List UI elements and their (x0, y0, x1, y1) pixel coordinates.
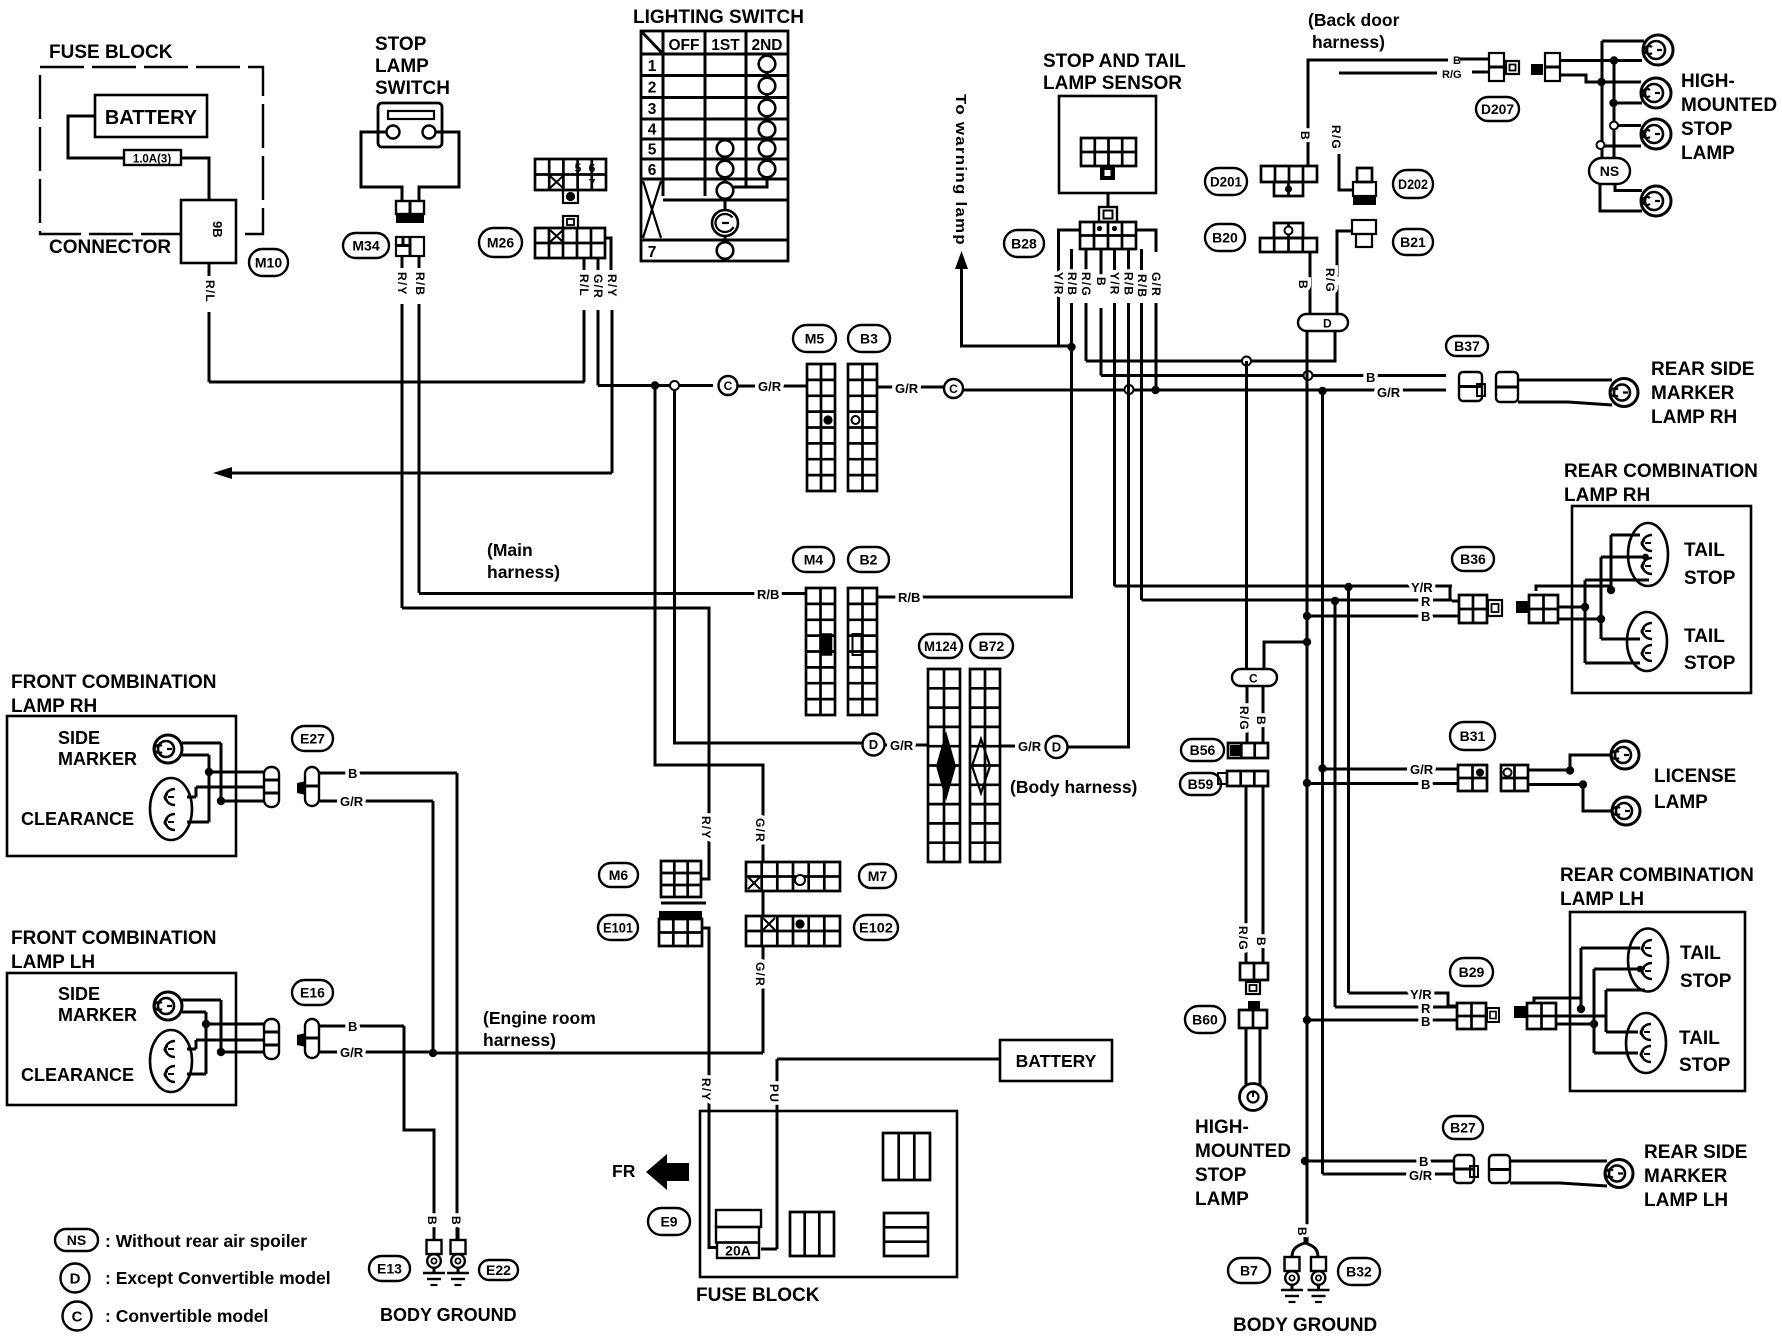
svg-text:TAIL: TAIL (1684, 626, 1725, 647)
high-mounted stop lamp bulbs (1643, 35, 1673, 65)
svg-text:STOP: STOP (1684, 653, 1736, 674)
svg-text:M4: M4 (804, 552, 824, 568)
svg-text:B: B (1421, 609, 1430, 624)
svg-text:STOP: STOP (1680, 971, 1732, 992)
connector B72 grid (970, 669, 1000, 862)
svg-text:B: B (1453, 55, 1461, 67)
link 2ND to rotary (734, 177, 767, 187)
connector E27 oval (292, 726, 333, 751)
wire Y/R net vertical (1347, 587, 1350, 993)
fuse block box (700, 1111, 957, 1277)
connector B56 oval (1181, 739, 1224, 761)
connector D201 oval (1205, 168, 1247, 195)
connector B37 pair (1459, 372, 1482, 401)
svg-text:M10: M10 (255, 255, 282, 271)
battery box (95, 95, 207, 137)
connector M124 oval (919, 634, 962, 658)
B28 leg runs (1070, 303, 1073, 348)
svg-text:B3: B3 (860, 331, 878, 347)
svg-text:: Except Convertible model: : Except Convertible model (105, 1268, 331, 1288)
connector E13 oval (369, 1256, 410, 1281)
connector M34 upper (396, 201, 424, 214)
connector E9 oval (648, 1208, 690, 1235)
svg-text:harness): harness) (483, 1030, 556, 1050)
svg-text:: Convertible model: : Convertible model (105, 1306, 268, 1326)
svg-text:(Main: (Main (487, 540, 533, 560)
svg-text:B: B (1094, 277, 1108, 287)
svg-text:MOUNTED: MOUNTED (1681, 95, 1777, 116)
connector box 9B (181, 200, 236, 263)
svg-text:R/G: R/G (1237, 706, 1251, 731)
connector C pill (1232, 669, 1277, 686)
svg-text:MOUNTED: MOUNTED (1195, 1141, 1291, 1162)
svg-text:7: 7 (589, 177, 596, 191)
connector B36 (1444, 586, 1459, 616)
svg-text:Y/R: Y/R (1108, 272, 1122, 296)
svg-text:TAIL: TAIL (1679, 1028, 1720, 1049)
side marker bulb (154, 735, 182, 763)
connector M34 oval (343, 233, 389, 258)
connector B27 oval (1443, 1116, 1483, 1139)
lamp box LH (1570, 912, 1745, 1091)
svg-text:CLEARANCE: CLEARANCE (21, 809, 134, 829)
svg-text:D: D (869, 737, 878, 752)
svg-text:LIGHTING SWITCH: LIGHTING SWITCH (633, 7, 804, 28)
svg-text:1ST: 1ST (711, 37, 740, 54)
svg-text:BATTERY: BATTERY (105, 107, 198, 129)
svg-text:B: B (1421, 777, 1430, 792)
row lines (641, 74, 788, 77)
connector M5 grid (807, 364, 835, 491)
wire R/L from M10 down (208, 263, 211, 276)
RH lamp internal wiring (1536, 535, 1640, 591)
front LH internal wires (182, 1012, 206, 1074)
switch contact circles 1ST (717, 140, 734, 157)
connector B32 oval (1338, 1258, 1380, 1285)
svg-text:G/R: G/R (1018, 739, 1042, 754)
connector D pill (1298, 314, 1348, 331)
arrow up (962, 268, 1072, 346)
connector B59 oval (1180, 773, 1221, 795)
fusible link 10A (124, 150, 181, 165)
wire R/L bus (209, 381, 585, 384)
svg-text:STOP: STOP (1679, 1055, 1731, 1076)
svg-text:BODY GROUND: BODY GROUND (1233, 1315, 1377, 1336)
svg-text:B: B (1254, 937, 1268, 947)
B28 leg wires (1070, 249, 1073, 270)
svg-text:Y/R: Y/R (1411, 580, 1433, 595)
svg-text:R/G: R/G (1236, 926, 1250, 951)
connector M4 oval (793, 547, 834, 572)
svg-text:E16: E16 (300, 985, 325, 1001)
svg-text:G/R: G/R (591, 274, 605, 299)
connector B2 oval (848, 547, 889, 572)
svg-text:M26: M26 (487, 235, 514, 251)
svg-text:G/R: G/R (890, 738, 914, 753)
front RH internal wires (182, 755, 209, 822)
sensor box (1059, 96, 1156, 193)
connector B31 b (1501, 765, 1528, 791)
fuse 20A (716, 1210, 761, 1227)
svg-text:M7: M7 (868, 868, 888, 884)
legend C (63, 1302, 92, 1331)
svg-text:NS: NS (1600, 163, 1619, 179)
svg-text:R/G: R/G (1442, 69, 1462, 81)
wire R/B to M4 (419, 592, 806, 595)
R/Y continues from E101 (702, 928, 709, 1112)
svg-text:LAMP RH: LAMP RH (1651, 407, 1737, 428)
svg-text:R/B: R/B (413, 272, 427, 296)
header cells (641, 31, 788, 196)
body ground symbol E13 (427, 1240, 442, 1254)
svg-text:LAMP: LAMP (1681, 143, 1735, 164)
wires Y/R R B to B36 (1115, 585, 1453, 588)
high-mounted stop lamp wiring (1560, 59, 1642, 62)
switch loop wires (361, 132, 402, 201)
connector B72 oval (970, 634, 1013, 658)
svg-text:E9: E9 (660, 1214, 677, 1230)
svg-text:G/R: G/R (1410, 762, 1434, 777)
wire B37 B line (1101, 374, 1446, 377)
tail/stop bulb RH top (1628, 523, 1668, 586)
connector E27 pills (264, 767, 279, 807)
wire B from E16 (319, 1025, 404, 1028)
connector B21 (1352, 220, 1376, 234)
svg-text:Y/R: Y/R (1410, 987, 1432, 1002)
wire open-circle net down to body harness D (675, 390, 863, 744)
wire R/G from B21 (1337, 231, 1352, 314)
wires B59 to B60 (1245, 786, 1248, 963)
connector M5 oval (793, 325, 836, 352)
connector M6 grid (661, 861, 701, 897)
svg-text:REAR COMBINATION: REAR COMBINATION (1564, 461, 1758, 482)
svg-text:G/R: G/R (340, 794, 364, 809)
svg-text:To warning lamp: To warning lamp (952, 94, 969, 246)
LH lamp internal wiring (1534, 948, 1640, 1009)
wire G/R from E102 to engine room bus (762, 946, 765, 1053)
svg-text:R/B: R/B (757, 587, 779, 602)
body ground E symbol right (1311, 1257, 1326, 1271)
svg-text:C: C (724, 379, 733, 393)
svg-text:STOP: STOP (375, 34, 427, 55)
legend D (61, 1264, 90, 1293)
svg-text:CONNECTOR: CONNECTOR (49, 237, 171, 258)
wire G/R bus to C (598, 384, 713, 387)
wire G/R from E16 (engine room harness) (319, 1051, 433, 1054)
connector B28 oval (1004, 230, 1044, 257)
svg-text:M6: M6 (609, 867, 629, 883)
fuse block component bottom right (884, 1213, 928, 1256)
connector M10 (249, 249, 288, 276)
svg-text:STOP AND TAIL: STOP AND TAIL (1043, 51, 1186, 72)
wire G/R between M7 and E102 (762, 891, 765, 916)
svg-text:B31: B31 (1460, 728, 1486, 744)
svg-text:G/R: G/R (895, 381, 919, 396)
svg-text:OFF: OFF (669, 37, 700, 54)
svg-text:HIGH-: HIGH- (1681, 71, 1735, 92)
connector B56 (1228, 743, 1268, 758)
svg-text:MARKER: MARKER (1644, 1166, 1728, 1187)
svg-text:G/R: G/R (1149, 272, 1163, 297)
connector D207 oval (1476, 97, 1519, 121)
wires R/Y R/B from M34 (401, 256, 404, 268)
svg-text:B59: B59 (1188, 776, 1214, 792)
svg-text:B: B (1296, 280, 1310, 290)
svg-text:B72: B72 (979, 638, 1005, 654)
svg-text:1: 1 (648, 58, 657, 75)
svg-text:R/B: R/B (1135, 274, 1149, 298)
svg-text:E101: E101 (603, 920, 633, 936)
wire PU from battery (777, 1058, 1000, 1061)
svg-text:FUSE BLOCK: FUSE BLOCK (696, 1285, 820, 1306)
svg-text:R/L: R/L (203, 280, 217, 303)
connector M26 grid (563, 216, 578, 228)
svg-text:B: B (1366, 370, 1375, 385)
lamp box LH front (7, 973, 236, 1105)
svg-text:1.0A(3): 1.0A(3) (133, 154, 172, 166)
svg-text:E27: E27 (300, 731, 325, 747)
svg-text:LAMP: LAMP (1654, 792, 1708, 813)
stop lamp switch body (378, 103, 442, 147)
side marker bulb (154, 992, 182, 1020)
svg-text:SIDE: SIDE (58, 984, 100, 1004)
fuse block component top right (883, 1133, 930, 1180)
svg-text:E102: E102 (859, 920, 893, 936)
svg-text:B: B (449, 1216, 463, 1226)
svg-text:B2: B2 (860, 552, 878, 568)
connector D201 (1307, 154, 1310, 166)
connector E102 grid (746, 916, 840, 946)
svg-text:R/Y: R/Y (699, 816, 713, 840)
connector D202 (1339, 154, 1353, 190)
svg-text:2: 2 (648, 80, 657, 97)
wire to D circle right (body harness) (674, 742, 677, 745)
connector E101 grid (659, 911, 702, 919)
svg-text:G/R: G/R (758, 379, 782, 394)
license lamp wires (1528, 769, 1570, 772)
svg-text:PU: PU (767, 1084, 781, 1103)
svg-text:(Engine room: (Engine room (483, 1008, 596, 1028)
svg-text:TAIL: TAIL (1680, 943, 1721, 964)
connector B31 oval (1450, 722, 1495, 750)
wire B from E27 (319, 772, 457, 775)
svg-text:7: 7 (648, 244, 657, 261)
node open circle (670, 381, 679, 390)
svg-text:LICENSE: LICENSE (1654, 766, 1736, 787)
wire battery to fusible link (68, 116, 124, 158)
connector B2 grid (848, 588, 877, 715)
svg-text:B56: B56 (1190, 742, 1216, 758)
svg-text:D202: D202 (1398, 176, 1428, 192)
svg-text:M5: M5 (805, 331, 825, 347)
svg-text:FUSE BLOCK: FUSE BLOCK (49, 42, 173, 63)
body ground symbol E22 (451, 1240, 466, 1254)
connector M34 lower (396, 237, 424, 256)
connector B20 (1274, 223, 1303, 238)
connector B3 grid (848, 364, 877, 491)
svg-text:E13: E13 (377, 1261, 402, 1277)
wire G/R from B72 to D to G/R bus (1000, 745, 1015, 748)
svg-text:9B: 9B (210, 221, 225, 238)
svg-text:CLEARANCE: CLEARANCE (21, 1065, 134, 1085)
svg-text:2ND: 2ND (751, 37, 782, 54)
wire G/R net vertical (1321, 391, 1324, 1174)
svg-text:REAR COMBINATION: REAR COMBINATION (1560, 865, 1754, 886)
svg-text:6: 6 (648, 162, 657, 179)
svg-text:MARKER: MARKER (58, 1005, 137, 1025)
svg-text:G/R: G/R (1377, 385, 1401, 400)
connector E16 pills (264, 1019, 279, 1059)
svg-text:R/G: R/G (1329, 125, 1343, 150)
connector B20 oval (1205, 224, 1245, 251)
svg-text:LAMP RH: LAMP RH (1564, 485, 1650, 506)
svg-text:FRONT COMBINATION: FRONT COMBINATION (11, 672, 216, 693)
connector B28 grid (1080, 222, 1136, 249)
svg-text:Y/R: Y/R (1052, 272, 1066, 296)
legend NS (55, 1229, 98, 1251)
sensor inner grid (1081, 138, 1136, 166)
connector B36 oval (1452, 547, 1494, 571)
svg-text:REAR SIDE: REAR SIDE (1644, 1142, 1747, 1163)
svg-text:B28: B28 (1011, 236, 1037, 252)
svg-text:SIDE: SIDE (58, 728, 100, 748)
svg-text:BATTERY: BATTERY (1016, 1051, 1097, 1071)
svg-text:R/B: R/B (898, 590, 920, 605)
svg-text:6: 6 (589, 161, 596, 175)
wire B net vertical (1306, 331, 1309, 1243)
svg-text:M34: M34 (352, 238, 379, 254)
connector B60 (1248, 1001, 1260, 1010)
wire G/R from E27 (319, 800, 433, 803)
svg-text:B: B (1421, 1014, 1430, 1029)
svg-text:FRONT COMBINATION: FRONT COMBINATION (11, 928, 216, 949)
wires B G/R to B27 (1305, 1160, 1454, 1163)
svg-text:R/B: R/B (1065, 272, 1079, 296)
convertible C symbol (719, 376, 738, 395)
wires G/R B to license (1323, 768, 1459, 771)
wire R net vertical (1334, 601, 1337, 1007)
wire R/G to C pill (1245, 361, 1248, 669)
svg-text:B: B (1419, 1154, 1428, 1169)
svg-text:R/Y: R/Y (605, 274, 619, 298)
svg-text:LAMP LH: LAMP LH (1560, 889, 1644, 910)
connector M26 oval (479, 228, 522, 257)
connector E101 oval (598, 915, 638, 940)
connector B7 oval (1228, 1258, 1270, 1283)
connector M4 grid (806, 588, 835, 715)
svg-text:4: 4 (648, 122, 657, 139)
connector B29 oval (1450, 958, 1493, 986)
connector B3 oval (848, 325, 890, 352)
connector B59 (1218, 773, 1227, 784)
svg-text:R/B: R/B (1122, 272, 1136, 296)
svg-text:D207: D207 (1481, 101, 1514, 117)
svg-text:E22: E22 (486, 1262, 511, 1278)
svg-text:R/Y: R/Y (699, 1078, 713, 1102)
svg-text:D: D (1323, 317, 1332, 331)
wire B back door (1308, 60, 1448, 166)
R/Y hook into M6 (701, 877, 709, 879)
connector E16 oval (292, 980, 333, 1005)
clearance bulb (150, 1030, 192, 1092)
svg-text:B: B (1298, 131, 1312, 141)
license lamp bulbs (1611, 741, 1639, 769)
svg-text:5: 5 (648, 142, 657, 159)
svg-text:R/G: R/G (1079, 272, 1093, 297)
svg-text:REAR SIDE: REAR SIDE (1651, 359, 1754, 380)
svg-text:MARKER: MARKER (1651, 383, 1735, 404)
row7 circle (717, 242, 734, 259)
branch B to C pill (1264, 642, 1307, 669)
wires below NS (1615, 184, 1642, 191)
connector joint 5/6/7 grid (535, 159, 606, 190)
wire R/G from D pill to bus (1086, 331, 1335, 361)
clearance bulb (150, 778, 192, 840)
svg-text:(Body harness): (Body harness) (1010, 777, 1137, 797)
svg-text:R: R (1421, 594, 1431, 609)
svg-text:LAMP: LAMP (1195, 1189, 1249, 1210)
tail/stop bulb LH top (1628, 929, 1668, 992)
svg-text:B: B (1254, 716, 1268, 726)
svg-text:R/L: R/L (577, 274, 591, 297)
connector B27 pair (1454, 1155, 1474, 1183)
connector D207 a (1460, 58, 1489, 61)
D circle symbol (863, 734, 885, 756)
wires Y/R R B to B29 (1349, 993, 1458, 1006)
svg-text:LAMP: LAMP (375, 56, 429, 77)
wire fusible link to connector 9B (181, 158, 209, 200)
connector B28 top attach (1099, 207, 1117, 222)
svg-text:C: C (72, 1308, 83, 1325)
svg-text:B29: B29 (1459, 964, 1485, 980)
svg-text:M124: M124 (924, 638, 957, 654)
connector B21 oval (1393, 229, 1433, 255)
svg-text:STOP: STOP (1195, 1165, 1247, 1186)
connector B31 a (1458, 765, 1487, 791)
wire G/R net from node down to M7 (655, 386, 763, 863)
engine room G/R bus (433, 1052, 763, 1055)
svg-text:B36: B36 (1460, 551, 1486, 567)
X in tall cell (643, 181, 661, 238)
wire G/R to M5 (738, 385, 807, 388)
B28 wing wires (1059, 230, 1081, 272)
junction node (651, 381, 659, 389)
svg-text:20A: 20A (725, 1243, 751, 1259)
wire G/R to M124 (885, 744, 928, 747)
svg-text:B37: B37 (1454, 338, 1480, 354)
fuse block dashed box (40, 67, 263, 234)
wires C pill to B56 (1246, 686, 1249, 743)
main G/R bus wire (963, 389, 1446, 392)
connector M7 grid (746, 862, 840, 891)
M26 wires R/L G/R R/Y (583, 258, 586, 270)
marker lamp LH body (1510, 1161, 1607, 1186)
svg-text:: Without rear air spoiler: : Without rear air spoiler (105, 1231, 307, 1251)
svg-text:MARKER: MARKER (58, 749, 137, 769)
NS oval (1589, 158, 1630, 184)
table frame (641, 31, 788, 261)
svg-text:B21: B21 (1400, 234, 1426, 250)
wire G/R from B3 to C (877, 386, 943, 389)
tail/stop bulb RH bottom (1627, 612, 1667, 671)
svg-text:G/R: G/R (1409, 1168, 1433, 1183)
svg-text:harness): harness) (487, 562, 560, 582)
battery box (1000, 1040, 1112, 1081)
svg-text:STOP: STOP (1681, 119, 1733, 140)
chain 2ND (766, 72, 769, 160)
switch contact circles 2ND (759, 56, 776, 73)
wire R/G back door (1339, 72, 1437, 75)
